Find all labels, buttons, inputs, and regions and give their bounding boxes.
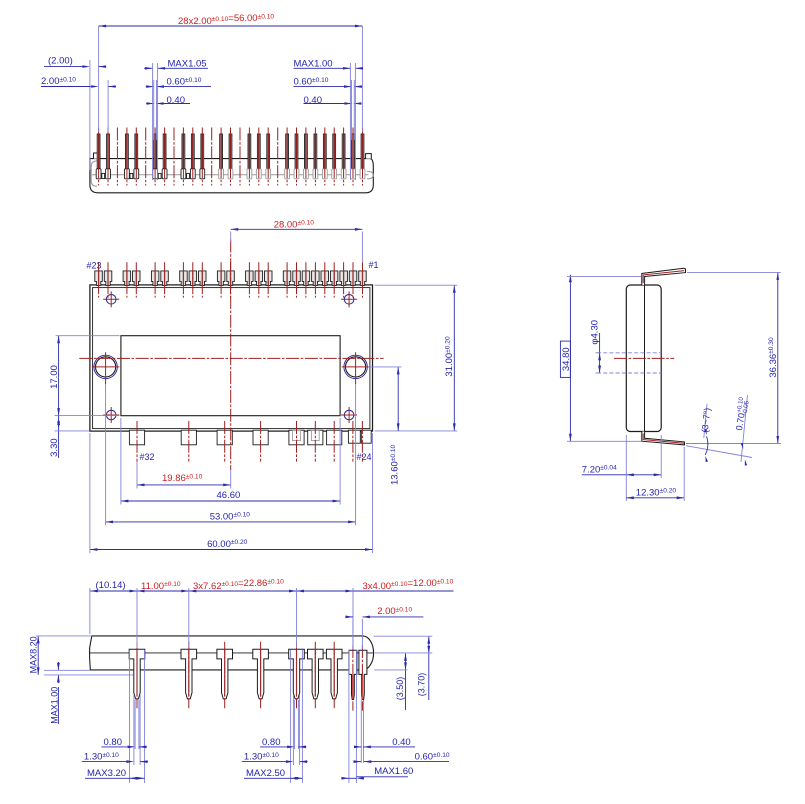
svg-text:#23: #23 (87, 261, 102, 271)
svg-text:0.40: 0.40 (167, 95, 186, 106)
dimension 46.60 (121, 500, 340, 502)
svg-text:0.80: 0.80 (262, 737, 281, 748)
dimension 28.00 (red) (231, 228, 363, 230)
extension lines right pin bracket (349, 63, 351, 180)
pin thickness 0.70 dimension (741, 395, 748, 462)
module body inner edge (93, 288, 370, 429)
svg-text:46.60: 46.60 (217, 490, 241, 501)
svg-text:34.80: 34.80 (561, 347, 572, 371)
svg-text:MAX8.20: MAX8.20 (29, 636, 39, 673)
top-row pins (profile) (96, 134, 101, 179)
extension lines left pin bracket (152, 63, 154, 180)
lid (raised center section) (121, 336, 340, 416)
pitch dimension row (red texts) (90, 590, 353, 592)
dimension 17.00 left side (58, 336, 60, 416)
svg-text:(2.00): (2.00) (48, 56, 73, 67)
bottom view body bar (90, 636, 374, 670)
dimension phi4.30 (599, 333, 601, 373)
bottom pins wide type (pins 32..26) (129, 649, 145, 699)
svg-text:(3.70): (3.70) (416, 673, 426, 697)
extension lines for pitch row (89, 588, 91, 634)
bar mid parting line (90, 652, 374, 654)
bottom pin centerline red (643, 434, 684, 444)
svg-text:0.40: 0.40 (304, 95, 323, 106)
pilot hole top-left (106, 295, 116, 305)
gray right end cap (367, 171, 373, 179)
pilot hole bottom-left (106, 410, 116, 420)
small stub feet between pin pairs (102, 173, 105, 178)
dimension (3.50) (405, 653, 407, 670)
dimension (3.70) (428, 636, 430, 653)
measurement cluster under pin at x=296.5 (290, 650, 292, 783)
top pin centerline red (643, 271, 684, 283)
top pin centerlines (plan) (98, 262, 100, 297)
bottom pin centerlines red (136, 642, 138, 708)
svg-text:0.80: 0.80 (104, 737, 123, 748)
pin centerlines (red) (98, 128, 100, 186)
bottom pins thin type (pins 25,24) (349, 650, 357, 699)
dimension 28x2.00=56.00 (red) (99, 25, 363, 27)
dimension 3.30 left side (58, 416, 60, 458)
mounting hole right (phi 4.30) (346, 357, 366, 377)
dimension 19.86 (red) (137, 484, 231, 486)
svg-text:#32: #32 (140, 452, 155, 462)
pin bend angle dimension (3~7 deg) (686, 446, 752, 458)
svg-text:3.30: 3.30 (49, 438, 60, 457)
gray left end cap (91, 161, 97, 186)
bottom slot centerlines (plan) (136, 421, 138, 462)
svg-text:MAX1.00: MAX1.00 (50, 687, 60, 724)
module body outer outline (90, 285, 373, 431)
pilot hole top-right (344, 295, 354, 305)
slot pin 24 (361, 430, 371, 443)
dimension 36.36 right (777, 272, 779, 443)
gray hidden slots (293, 430, 301, 440)
case parting line (644, 285, 646, 432)
gray spacer line (92, 174, 369, 176)
svg-text:17.00: 17.00 (49, 365, 60, 389)
svg-text:(10.14): (10.14) (96, 580, 126, 591)
svg-text:#24: #24 (357, 452, 372, 462)
measurement cluster under pin at x=137.0 (129, 650, 131, 783)
hole center crosses (92, 366, 120, 368)
bottom row pin slots (plan) (129, 430, 144, 445)
top row pins (plan) (95, 271, 103, 286)
svg-text:#1: #1 (369, 260, 379, 270)
svg-text:MAX1.05: MAX1.05 (168, 59, 207, 70)
dimension 34.80 (boxed) (569, 275, 571, 442)
side body outline (626, 285, 661, 432)
hidden hole lines (dashed) (597, 352, 661, 354)
svg-text:MAX2.50: MAX2.50 (246, 768, 285, 779)
dimension 13.60 right side (397, 367, 399, 431)
svg-text:φ4.30: φ4.30 (590, 320, 601, 345)
slot pin 25 (348, 430, 360, 443)
top pin (bent) (642, 268, 686, 285)
bottom pin (bent) (642, 432, 685, 445)
svg-text:0.40: 0.40 (392, 737, 411, 748)
dimension 60.00 (90, 549, 373, 551)
solid red cores inside pins (98, 134, 100, 168)
pilot hole bottom-right (344, 410, 354, 420)
left end tab (94, 153, 99, 159)
dimension 53.00 (106, 521, 356, 523)
side view centerline red (614, 357, 674, 359)
module body outline (top profile) (90, 159, 373, 193)
right measurement cluster (pins 25/24) (348, 650, 350, 783)
svg-text:MAX1.60: MAX1.60 (374, 766, 413, 777)
svg-text:MAX1.00: MAX1.00 (294, 59, 333, 70)
mounting hole left (phi 4.30) (96, 357, 116, 377)
dimension MAX8.20 left (37, 636, 39, 675)
dimension MAX1.00 left (57, 662, 59, 670)
right end tab (366, 154, 372, 159)
dimension 31.00 right side (453, 285, 455, 431)
svg-text:MAX3.20: MAX3.20 (87, 768, 126, 779)
svg-text:(3.50): (3.50) (395, 677, 405, 701)
red centerlines plan view (79, 357, 383, 359)
